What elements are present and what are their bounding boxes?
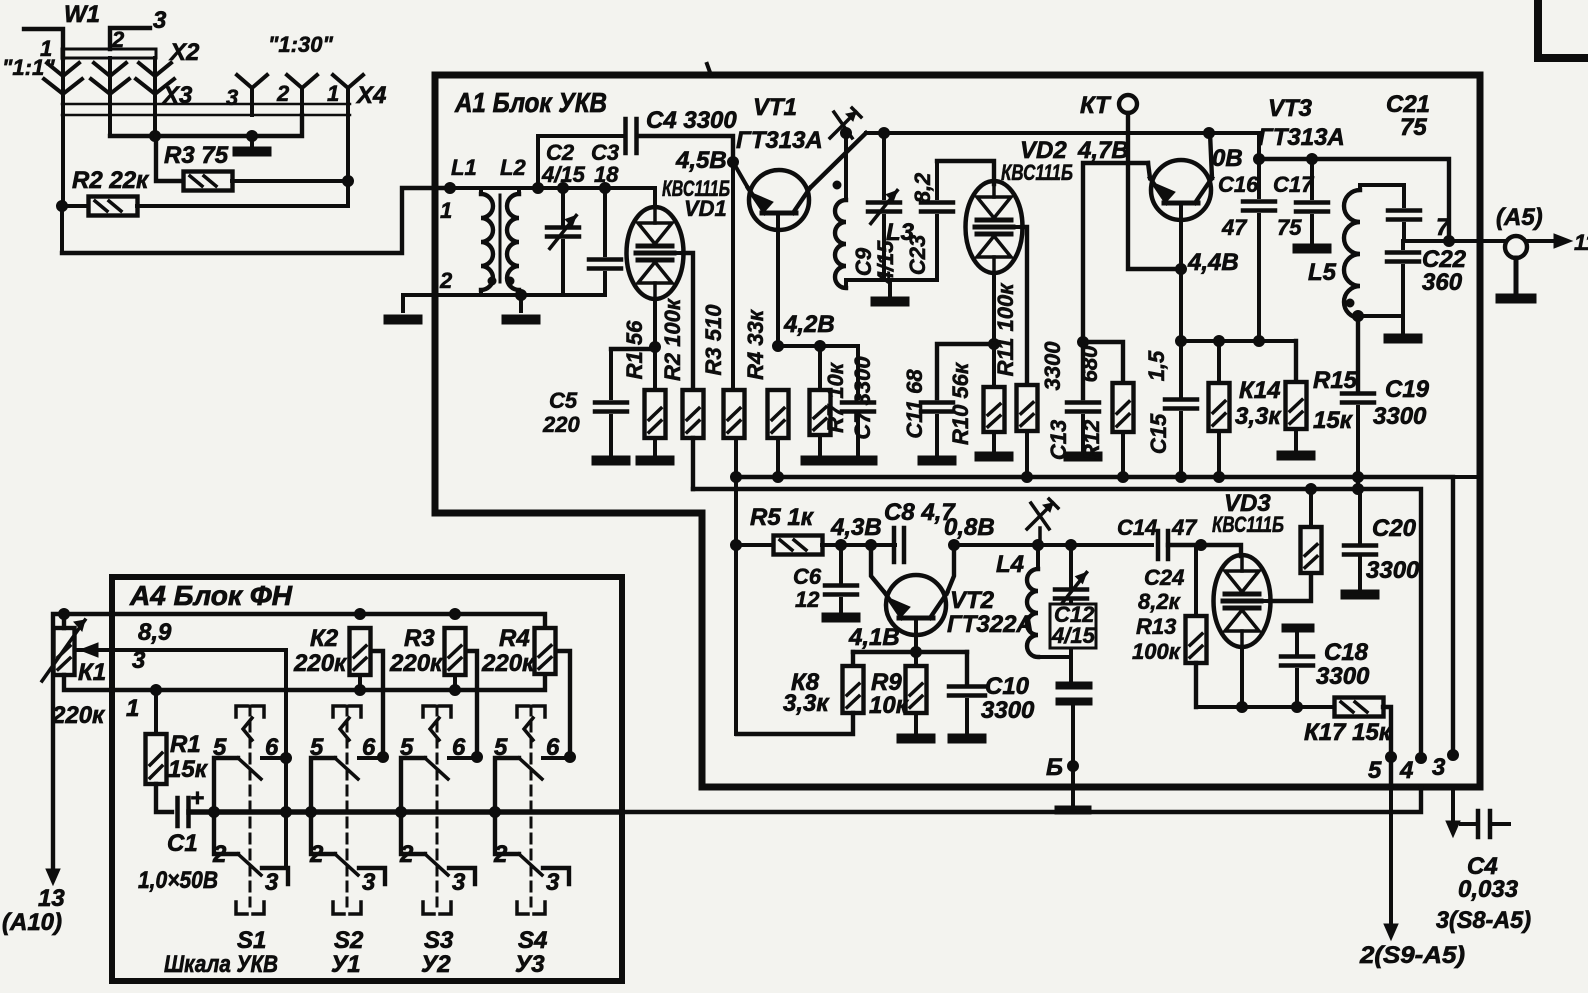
junction R3 top bbox=[450, 609, 461, 620]
junction R3 75 right node bbox=[343, 176, 354, 187]
svg-text:С10: С10 bbox=[985, 673, 1030, 700]
svg-text:1,5: 1,5 bbox=[1144, 350, 1169, 381]
wire R1 bottom to C1 bbox=[156, 784, 172, 812]
wire X3 pin2 down-lead bbox=[108, 95, 112, 136]
resistor R3 220k dial bbox=[445, 628, 466, 675]
switch S2 upper contact spring bbox=[340, 718, 349, 740]
svg-text:R11 100к: R11 100к bbox=[993, 282, 1018, 377]
switch S3 contact 5 terminal bbox=[401, 758, 425, 854]
resistor R5 1k bbox=[774, 536, 823, 555]
svg-text:75: 75 bbox=[1277, 215, 1302, 240]
transformer core line bbox=[499, 195, 502, 282]
svg-text:3,3к: 3,3к bbox=[1235, 403, 1282, 430]
junction C9 top bbox=[879, 128, 890, 139]
svg-text:15к: 15к bbox=[168, 756, 209, 783]
svg-text:1,0×50В: 1,0×50В bbox=[138, 867, 218, 894]
svg-text:R12: R12 bbox=[1079, 419, 1104, 460]
switch S4 upper moving arm bbox=[519, 758, 542, 779]
svg-text:220к: 220к bbox=[481, 650, 536, 677]
wire K8 R9 C10 top rail bbox=[853, 650, 967, 654]
svg-text:8,2: 8,2 bbox=[910, 172, 935, 203]
junction pin 5 bbox=[1386, 752, 1397, 763]
wire C4 to VT1 base node bbox=[637, 136, 733, 162]
connector X2 pin chevrons row 1 bbox=[47, 63, 79, 76]
svg-text:X2: X2 bbox=[168, 39, 200, 66]
capacitor C23 8.2 bbox=[935, 161, 939, 198]
ground under C13 bbox=[1064, 452, 1102, 461]
ground under C17 bbox=[1293, 244, 1331, 253]
svg-text:75: 75 bbox=[1400, 114, 1427, 141]
wire R2 right lead to X4 pin1 bbox=[137, 204, 348, 208]
test point KT bbox=[1119, 95, 1137, 113]
capacitor C18 3300 bbox=[1282, 624, 1314, 632]
junction R2 left node bbox=[57, 201, 68, 212]
svg-text:К17 15к: К17 15к bbox=[1304, 719, 1393, 746]
L3 polarity dot bbox=[833, 181, 841, 189]
svg-text:4: 4 bbox=[1399, 757, 1413, 784]
switch S1 contact 6 terminal bbox=[262, 756, 288, 760]
svg-text:R4 33к: R4 33к bbox=[743, 308, 768, 380]
junction C13 R12 tie bbox=[1078, 337, 1089, 348]
wire VT3 base down lead bbox=[1179, 205, 1183, 341]
switch S4 shaft dashed bbox=[530, 706, 533, 906]
wire VT1 collector diagonal to 0V rail bbox=[810, 133, 866, 188]
wire pin 5 exit arrow 2(S9-A5) bbox=[1389, 787, 1393, 925]
svg-text:3,3к: 3,3к bbox=[783, 690, 830, 717]
junction bus1 R12 bbox=[1118, 472, 1129, 483]
winding polarity dots bbox=[488, 277, 496, 285]
svg-text:R1: R1 bbox=[170, 731, 201, 758]
junction C16 wire with output rail y159 bbox=[1254, 154, 1265, 165]
wire tuning bus y812 thick bbox=[189, 809, 622, 815]
L5 polarity dot bbox=[1346, 299, 1354, 307]
varicap VD2 KVS111B bbox=[966, 181, 1023, 273]
junction 0.8V node bbox=[949, 540, 960, 551]
svg-text:+: + bbox=[190, 785, 204, 812]
svg-text:X4: X4 bbox=[355, 82, 386, 109]
junction bus2 R16 bbox=[1306, 484, 1317, 495]
switch S3 shaft dashed bbox=[436, 706, 439, 906]
wire bus y136 between connectors bbox=[110, 115, 302, 136]
switch S4 contact 3 terminal bbox=[543, 868, 569, 884]
svg-text:4,4В: 4,4В bbox=[1187, 249, 1239, 276]
capacitor C14 47 bbox=[1156, 531, 1161, 559]
svg-text:КВС111Б: КВС111Б bbox=[1001, 160, 1073, 185]
switch S2 bottom bracket bbox=[333, 902, 344, 914]
capacitor C4 3300 bbox=[623, 119, 628, 153]
capacitor C15 1.5 bbox=[1179, 341, 1183, 398]
svg-text:3300: 3300 bbox=[1366, 557, 1420, 584]
svg-text:"1:30": "1:30" bbox=[268, 32, 333, 57]
wire R5 right lead bbox=[822, 543, 895, 547]
junction pin 4 bbox=[1416, 753, 1427, 764]
svg-text:11: 11 bbox=[1574, 230, 1588, 255]
node 1 junction of L1 bbox=[445, 183, 456, 194]
block A1 VHF tuner outline bbox=[435, 75, 1480, 787]
resistor R1 15k bbox=[146, 734, 167, 784]
adjacent sheet corner mark top right bbox=[1538, 0, 1588, 58]
switch S3 junction on bus bbox=[396, 807, 407, 818]
wire VD1 bottom lead to R1 bbox=[653, 299, 657, 390]
wire VD3 centre tap to R16 bbox=[1270, 573, 1311, 601]
svg-text:4,2В: 4,2В bbox=[783, 311, 835, 338]
wire R3 right lead bbox=[232, 179, 348, 183]
svg-text:R5 1к: R5 1к bbox=[750, 504, 815, 531]
ground of L3 cell bbox=[888, 280, 892, 296]
wire pin 3 exit arrow 3(S8-A5) bbox=[1451, 787, 1455, 822]
svg-text:S3: S3 bbox=[424, 927, 454, 954]
wire exit 13 A10 bbox=[53, 614, 64, 870]
svg-text:C7 3300: C7 3300 bbox=[850, 356, 875, 440]
junction K2 bottom bbox=[355, 685, 366, 696]
junction S1 contact 6 bbox=[281, 753, 292, 764]
ground under R10 bbox=[992, 432, 996, 452]
svg-text:100к: 100к bbox=[1132, 639, 1182, 664]
bus1 stub to block edge bbox=[1453, 475, 1479, 479]
junction B test point bbox=[1068, 761, 1079, 772]
ground under C5 bbox=[592, 456, 630, 465]
ground under R15 bbox=[1294, 429, 1298, 451]
transistor VT2 GT322A bbox=[886, 575, 946, 635]
wire bus1 common y477 bbox=[736, 477, 1453, 755]
switch S3 bottom bracket bbox=[423, 902, 434, 914]
wire R5 left lead bbox=[736, 543, 774, 547]
wire 8.9 rail from K1 top bbox=[64, 614, 545, 628]
svg-text:47: 47 bbox=[1221, 215, 1248, 240]
varicap VD1 KVS111B bbox=[627, 207, 684, 299]
svg-text:К2: К2 bbox=[310, 625, 339, 652]
switch S1 junction on bus bbox=[209, 807, 220, 818]
stray mark on top border bbox=[707, 64, 711, 75]
wire B point lead bbox=[1071, 705, 1075, 810]
resistor R11 100k bbox=[1017, 385, 1038, 431]
junction L3 top bbox=[841, 128, 852, 139]
wire VT3 collector to 0V rail bbox=[1210, 133, 1212, 178]
svg-text:А4 Блок ФН: А4 Блок ФН bbox=[129, 580, 293, 611]
svg-text:С23: С23 bbox=[905, 235, 930, 275]
capacitor C17 75 bbox=[1310, 159, 1314, 198]
svg-text:ГТ313А: ГТ313А bbox=[1258, 124, 1345, 151]
junction VT2 base rail bbox=[911, 647, 922, 658]
connector X3/X4 receptacle strip double line bbox=[62, 103, 350, 106]
wire R3 left lead from y136 bbox=[156, 136, 184, 181]
switch S2 junction on bus bbox=[306, 807, 317, 818]
svg-text:Шкала УКВ: Шкала УКВ bbox=[164, 951, 278, 978]
svg-text:3: 3 bbox=[153, 7, 167, 34]
junction S2 contact 6 bbox=[378, 752, 389, 763]
connector X2 bar bbox=[62, 49, 156, 58]
terminal circle A5 bbox=[1505, 236, 1527, 258]
output arrow to 11 bbox=[1526, 239, 1562, 243]
wire S1 column from wiper to contacts bbox=[284, 650, 288, 868]
capacitor C7 3300 bbox=[856, 346, 860, 398]
wire antenna to tuner input node 1 bbox=[62, 188, 450, 253]
wire C4 branch riser bbox=[536, 136, 540, 188]
alignment cross mark for L4 bbox=[1027, 503, 1053, 529]
svg-text:3(S8-А5): 3(S8-А5) bbox=[1436, 907, 1531, 934]
junction X3 pin3 on y136 bbox=[150, 131, 161, 142]
svg-text:VT2: VT2 bbox=[950, 587, 995, 614]
switch S4 lower moving arm bbox=[519, 854, 542, 875]
svg-text:47: 47 bbox=[1171, 515, 1198, 540]
wire C4 top link bbox=[538, 134, 625, 138]
capacitor C20 3300 bbox=[1358, 489, 1362, 543]
alignment cross mark for L3 bbox=[830, 112, 856, 138]
svg-text:220к: 220к bbox=[293, 650, 348, 677]
svg-text:3: 3 bbox=[132, 647, 146, 674]
trimmer capacitor C12 4/15 bbox=[1069, 545, 1073, 586]
wire oscillator line y545 bbox=[954, 543, 1152, 547]
resistor R7 10k bbox=[818, 346, 822, 390]
svg-text:0,8В: 0,8В bbox=[944, 514, 995, 541]
ground under C10 bbox=[948, 734, 986, 743]
resistor R2 22k bbox=[89, 197, 138, 216]
wire VT2 base down lead bbox=[914, 619, 918, 666]
resistor R15 15k bbox=[1294, 341, 1298, 382]
svg-text:(А5): (А5) bbox=[1496, 204, 1543, 231]
switch S2 contact 6 terminal bbox=[359, 756, 385, 760]
junction output node bbox=[1444, 236, 1455, 247]
switch S1 shaft dashed bbox=[249, 706, 252, 906]
wire input top rail y188 bbox=[450, 186, 655, 190]
wire R3 bottom to bus1 and R5 riser bbox=[734, 438, 738, 545]
svg-text:R2 22к: R2 22к bbox=[72, 167, 150, 194]
wire K2 tap to S2 bbox=[371, 651, 383, 757]
wire rail y159 to output corner bbox=[1259, 159, 1449, 241]
svg-text:3: 3 bbox=[452, 869, 466, 896]
wire R3 bottom bbox=[453, 675, 457, 690]
wire VT2 emitter link bbox=[947, 545, 954, 593]
svg-text:8,2к: 8,2к bbox=[1138, 589, 1182, 614]
svg-text:220к: 220к bbox=[389, 650, 444, 677]
svg-text:360: 360 bbox=[1422, 269, 1463, 296]
svg-text:ГТ322А: ГТ322А bbox=[947, 611, 1034, 638]
capacitor to B point thick plates bbox=[1056, 682, 1092, 689]
svg-text:КВС111Б: КВС111Б bbox=[1212, 512, 1284, 537]
ground under C6 bbox=[822, 613, 860, 622]
junction C16 bottom on rail y341 bbox=[1254, 336, 1265, 347]
transistor VT3 GT313A bbox=[1151, 160, 1211, 220]
capacitor C16 47 bbox=[1257, 133, 1261, 197]
wire L3 cell bottom rail bbox=[846, 278, 937, 282]
svg-text:4,1В: 4,1В bbox=[848, 624, 900, 651]
svg-text:W1: W1 bbox=[64, 1, 100, 28]
resistor K14 3.3k bbox=[1217, 341, 1221, 383]
wire VD1 centre tap to R2 100k bbox=[683, 253, 693, 390]
svg-text:S2: S2 bbox=[334, 927, 364, 954]
svg-text:R3 75: R3 75 bbox=[164, 142, 229, 169]
svg-text:КТ: КТ bbox=[1080, 92, 1112, 119]
ground under R7 bbox=[818, 435, 822, 456]
wire 4.2V rail bbox=[778, 344, 858, 348]
svg-text:0,033: 0,033 bbox=[1458, 876, 1519, 903]
ground bar at B lead bottom bbox=[1055, 806, 1091, 814]
junction VD2 bottom with R10 C11 bbox=[989, 339, 1000, 350]
svg-text:3: 3 bbox=[265, 869, 279, 896]
svg-text:С15: С15 bbox=[1146, 413, 1171, 454]
resistor R9 10k bbox=[906, 666, 927, 713]
junction C19 on bus2 bbox=[1353, 484, 1364, 495]
resistor R4 33k bbox=[768, 390, 789, 438]
capacitor C21 75 bbox=[1402, 185, 1406, 206]
junction C3 top bbox=[600, 183, 611, 194]
inductor L4 bbox=[1036, 545, 1040, 569]
svg-text:2: 2 bbox=[399, 841, 414, 868]
svg-text:VT1: VT1 bbox=[753, 94, 797, 121]
wire X2 pin 2 up-lead to terminal 3 bbox=[110, 28, 150, 49]
resistor R13 100k bbox=[1194, 545, 1198, 616]
wire C13 to R12 top bbox=[1083, 342, 1123, 383]
junction C18 on rail y707 bbox=[1292, 702, 1303, 713]
svg-text:R13: R13 bbox=[1136, 614, 1176, 639]
junction R7 top bbox=[815, 341, 826, 352]
junction bus1 K14 bbox=[1214, 472, 1225, 483]
svg-text:С11 68: С11 68 bbox=[902, 369, 927, 439]
connector X2 pin stems bbox=[61, 58, 65, 90]
svg-text:3300: 3300 bbox=[1040, 341, 1065, 391]
svg-text:S4: S4 bbox=[518, 927, 547, 954]
junction R5 left on riser bbox=[731, 540, 742, 551]
svg-text:4/15: 4/15 bbox=[1051, 623, 1096, 648]
wire X3 pin3 down-lead bbox=[153, 95, 157, 137]
svg-text:13: 13 bbox=[38, 885, 65, 912]
junction S3 contact 6 bbox=[472, 752, 483, 763]
wire R13 bottom corner bbox=[1194, 663, 1198, 707]
wire K14 bottom to bus1 bbox=[1217, 431, 1221, 477]
svg-text:4,5В: 4,5В bbox=[675, 147, 727, 174]
wire left antenna column bbox=[60, 206, 64, 253]
wire K2 bottom bbox=[358, 675, 362, 690]
wire C23 top to VD2 top bbox=[937, 161, 994, 184]
resistor R4 220k dial bbox=[535, 628, 556, 674]
junction bus1 R3-510 bbox=[731, 472, 742, 483]
svg-text:2: 2 bbox=[493, 841, 508, 868]
junction C2 top bbox=[558, 183, 569, 194]
connector X3 pin chevrons row 2 bbox=[44, 79, 82, 94]
capacitor C19 3300 bbox=[1342, 391, 1374, 396]
junction 4.3V node bbox=[836, 540, 847, 551]
svg-text:А1 Блок УКВ: А1 Блок УКВ bbox=[454, 87, 607, 118]
junction bus1 R11 bbox=[1022, 472, 1033, 483]
junction 4.2V R4 top bbox=[773, 341, 784, 352]
svg-text:С1: С1 bbox=[167, 830, 198, 857]
junction VT3 collector on rail bbox=[1204, 128, 1215, 139]
svg-text:2: 2 bbox=[439, 268, 453, 293]
wire R12 bottom to bus1 bbox=[1121, 432, 1125, 477]
resistor R16 bbox=[1301, 527, 1322, 573]
switch S3 lower moving arm bbox=[425, 854, 448, 875]
wire R5 riser lower part bbox=[734, 545, 738, 734]
switch S2 contact 3 terminal bbox=[359, 868, 385, 884]
wire L4 C12 bottom tie bbox=[1038, 655, 1071, 659]
svg-text:5: 5 bbox=[1368, 757, 1382, 784]
ground under R9 bbox=[914, 713, 918, 734]
svg-text:У3: У3 bbox=[515, 951, 545, 978]
svg-text:12: 12 bbox=[795, 587, 820, 612]
wire R4 tap to S4 bbox=[556, 651, 570, 757]
svg-text:C4 3300: C4 3300 bbox=[646, 107, 737, 134]
wire VT1 base down lead to 4.2V node bbox=[776, 216, 780, 346]
svg-text:С14: С14 bbox=[1117, 515, 1157, 540]
svg-text:Б: Б bbox=[1046, 754, 1063, 781]
wire R11 bottom to bus1 bbox=[1025, 431, 1029, 477]
junction emitter rail y341 bbox=[1176, 336, 1187, 347]
wire 4.7V emitter link bbox=[1083, 163, 1148, 398]
svg-text:15к: 15к bbox=[1313, 407, 1354, 434]
junction C17 top bbox=[1307, 154, 1318, 165]
junction C4 branch bbox=[533, 183, 544, 194]
chassis ground at A5 bbox=[1514, 258, 1519, 295]
wire L5 bottom to C19 C22 node bbox=[1358, 318, 1360, 393]
junction K2 top bbox=[355, 609, 366, 620]
svg-text:1: 1 bbox=[327, 81, 339, 106]
junction VT1 base node 4.5V bbox=[728, 157, 739, 168]
wire K1 bottom to rail 1 bbox=[64, 674, 545, 690]
ground under C11 bbox=[918, 456, 956, 465]
svg-text:С24: С24 bbox=[1144, 565, 1184, 590]
wire R3 510 top lead from VT1 base node bbox=[731, 162, 735, 390]
capacitor C22 360 bbox=[1401, 241, 1405, 248]
transistor VT1 GT313A bbox=[749, 170, 809, 230]
wire rail y341 bbox=[1181, 339, 1296, 343]
connector X4 pin chevron 3 bbox=[237, 75, 267, 88]
switch S1 contact 3 terminal bbox=[262, 868, 288, 884]
junction 4.4V on VT3 collector lead bbox=[1176, 264, 1187, 275]
wire VD3 bottom lead bbox=[1240, 647, 1244, 707]
svg-text:C5: C5 bbox=[549, 388, 578, 413]
switch S2 contact 5 terminal bbox=[311, 758, 335, 854]
switch S2 shaft dashed bbox=[346, 706, 349, 906]
capacitor C3 18 bbox=[603, 188, 607, 255]
wire X4 pin1 down-lead to R3 node bbox=[346, 107, 350, 206]
svg-text:С19: С19 bbox=[1385, 376, 1430, 403]
svg-text:L2: L2 bbox=[500, 155, 526, 180]
svg-text:3300: 3300 bbox=[981, 697, 1035, 724]
resistor K8 3.3k bbox=[851, 652, 855, 666]
capacitor C5 220 bbox=[611, 347, 655, 351]
svg-text:С18: С18 bbox=[1324, 639, 1369, 666]
svg-text:7: 7 bbox=[1436, 214, 1451, 241]
svg-text:3: 3 bbox=[226, 85, 238, 110]
svg-text:R10 56к: R10 56к bbox=[948, 361, 973, 445]
trimmer capacitor C9 4/15 bbox=[882, 133, 886, 198]
inductor L1 bbox=[479, 188, 483, 194]
capacitor C4 0.033 coupling bbox=[1476, 811, 1481, 837]
wire VT2 base link bbox=[871, 545, 885, 593]
wire L5 top to C21 bbox=[1360, 183, 1404, 187]
svg-text:8,9: 8,9 bbox=[138, 619, 172, 646]
capacitor C12 boxed label bbox=[1050, 604, 1096, 648]
resistor R3 510 bbox=[724, 390, 745, 438]
svg-text:1: 1 bbox=[440, 198, 452, 223]
capacitor C10 3300 bbox=[965, 652, 969, 684]
junction R3 bottom bbox=[450, 685, 461, 696]
resistor K2 220k bbox=[350, 628, 371, 675]
potentiometer K1 220k bbox=[54, 628, 75, 675]
wire VD2 centre tap to R11 bbox=[1022, 227, 1027, 385]
wire C22 ground link bbox=[1358, 314, 1403, 318]
svg-text:R7 10к: R7 10к bbox=[823, 361, 848, 433]
junction S1 on bus bbox=[281, 807, 292, 818]
resistor K17 15k bbox=[1335, 698, 1384, 717]
resistor R3 75 bbox=[184, 172, 233, 191]
ground under C7 bbox=[839, 456, 877, 465]
svg-text:С16: С16 bbox=[1218, 172, 1259, 197]
switch S1 contact 5 terminal bbox=[214, 758, 238, 854]
switch S1 upper contact spring bbox=[243, 718, 252, 740]
inductor L2 bbox=[517, 188, 521, 194]
junction VD3 on rail y707 bbox=[1237, 702, 1248, 713]
